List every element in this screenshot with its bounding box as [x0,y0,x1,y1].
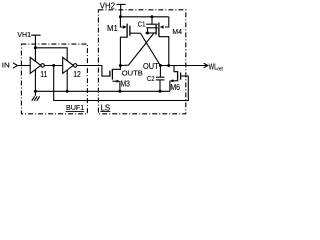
svg-text:OUT: OUT [143,62,159,71]
svg-text:M1: M1 [107,24,118,33]
capacitor C1 [146,17,158,33]
VH1 supply stub [31,35,40,61]
junction C1-M4 gate [146,32,149,35]
svg-text:BUF1: BUF1 [66,103,84,112]
inverter I1 [30,57,41,73]
svg-text:ret: ret [217,67,223,73]
ground symbol [32,91,40,101]
node OUT [159,64,162,67]
svg-text:M4: M4 [172,27,182,36]
wire OUT to WL [160,65,207,67]
svg-text:M3: M3 [121,79,130,88]
junction I1 out [52,64,55,67]
junction M3 source [118,90,121,93]
svg-text:M6: M6 [170,83,180,92]
dash-dot box LS [98,10,185,114]
svg-text:IN: IN [2,62,10,69]
wire I2 out to M3 gate [77,66,110,77]
VH2 supply stub [116,4,125,16]
transistor M1 [120,17,140,66]
wire I1 out to M6 gate (return loop) [54,66,189,101]
node OUTB [119,64,122,67]
inverter I2 [63,57,74,73]
wire I2 ground pin [66,70,68,91]
junction M4 drain [167,64,170,67]
svg-text:12: 12 [73,70,81,79]
svg-text:VH2: VH2 [100,1,115,10]
wire VH1 rail [35,48,67,61]
ground rail [35,90,170,92]
WL arrow [204,63,208,68]
svg-text:OUTB: OUTB [122,68,143,77]
wire I1 out to I2 [44,65,62,67]
junction I2 gnd [66,90,69,93]
svg-text:C1: C1 [138,22,146,29]
svg-text:11: 11 [40,70,48,79]
wire VH2 rail [120,16,168,18]
transistor M3 [110,66,121,92]
transistor M4 [145,17,169,66]
wire cross-couple M4 gate to OUTB [120,33,154,66]
svg-text:C2: C2 [147,76,155,83]
IN arrow [13,63,17,68]
transistor M6 [170,66,181,92]
junction VH2-M1 [119,15,122,18]
wire I1 ground pin [34,70,36,92]
junction VH2-C1 [151,15,154,18]
dash-dot box BUF1 [21,44,87,114]
junction I1 gnd [34,90,37,93]
junction C2 gnd [159,90,162,93]
wire cross-couple M1 gate to OUT [140,33,160,65]
svg-text:VH1: VH1 [17,32,31,39]
wire IN to I1 [17,65,30,67]
junction VH1-I1 [34,46,37,49]
capacitor C2 [156,66,165,92]
